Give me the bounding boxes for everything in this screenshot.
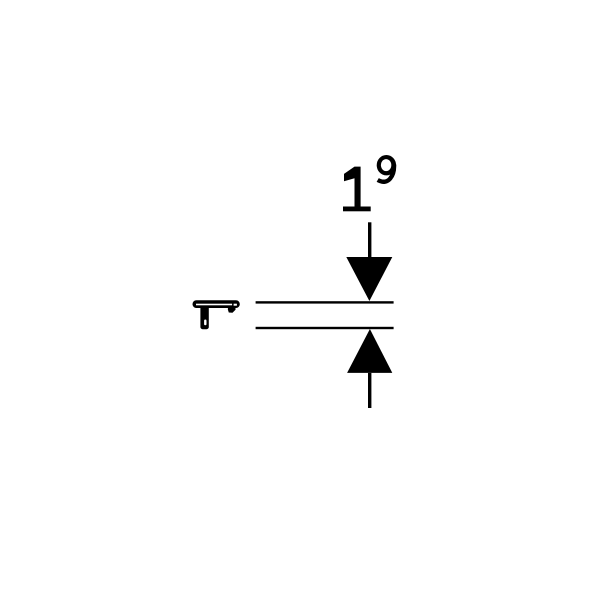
profile icon: vertical stem	[200, 306, 208, 329]
up arrow head	[347, 329, 392, 373]
up arrow stem	[368, 373, 371, 408]
down arrow stem	[368, 222, 371, 258]
lower gap line	[256, 327, 394, 329]
dimension label digit 1 base bar	[343, 207, 371, 212]
dimension label digit 1	[344, 167, 361, 207]
superscript 9 tail	[378, 165, 394, 182]
profile icon: stem slot	[204, 320, 206, 326]
superscript 9 bowl	[377, 155, 396, 175]
down arrow head	[346, 257, 392, 301]
profile icon: bar highlight slit	[196, 304, 232, 306]
upper gap line	[256, 301, 394, 303]
superscript 9 bowl counter	[381, 159, 391, 171]
profile icon: right hook tab	[228, 307, 236, 313]
profile icon: bar highlight dot	[234, 304, 237, 306]
profile icon: horizontal bar	[193, 300, 240, 308]
